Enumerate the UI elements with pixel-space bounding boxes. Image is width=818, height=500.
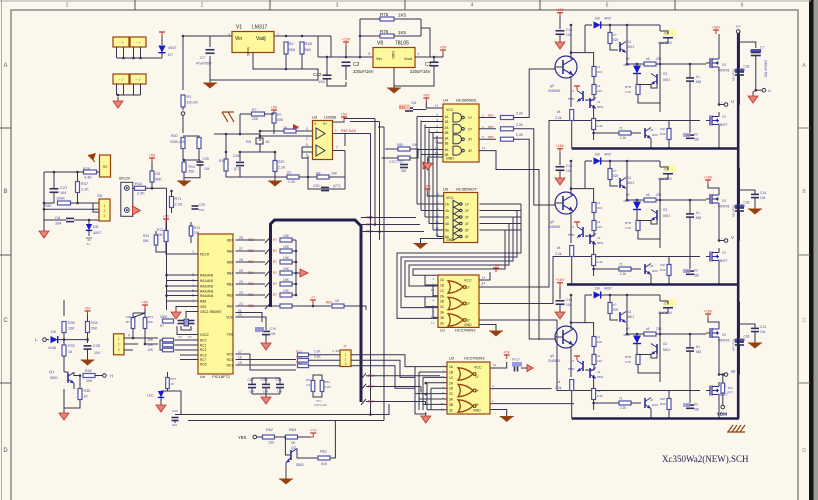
wire bbox=[417, 116, 443, 118]
wire bbox=[317, 36, 319, 57]
junction bbox=[76, 202, 79, 205]
wire bbox=[660, 301, 668, 304]
node terminal bbox=[736, 30, 740, 34]
wire bbox=[74, 372, 79, 375]
wire bbox=[167, 274, 199, 276]
svg-text:100: 100 bbox=[597, 340, 602, 344]
svg-text:1B: 1B bbox=[449, 371, 453, 375]
svg-text:60NF06: 60NF06 bbox=[718, 339, 730, 343]
resistor ?4 2.2k (stage U) bbox=[592, 119, 596, 130]
svg-text:+16V: +16V bbox=[704, 310, 713, 314]
svg-text:+5V: +5V bbox=[440, 46, 447, 50]
ground bbox=[754, 340, 756, 343]
svg-text:C36: C36 bbox=[744, 201, 750, 205]
capacitor C16 104 (stage U) bbox=[556, 30, 565, 32]
svg-text:Vout1: Vout1 bbox=[246, 47, 250, 56]
capacitor C26 bbox=[236, 161, 244, 163]
resistor R?7 bbox=[398, 156, 410, 160]
wire bbox=[418, 372, 420, 410]
junction bbox=[659, 63, 662, 66]
capacitor C4 1000uF/50V bbox=[751, 52, 761, 54]
wire bbox=[298, 436, 311, 438]
wire bbox=[361, 384, 366, 390]
wire bbox=[167, 280, 199, 282]
wire bbox=[309, 359, 341, 361]
MOSFET V2 60NF06 (stage W) bbox=[709, 328, 711, 338]
svg-text:50K: 50K bbox=[155, 178, 162, 182]
resistor R44 10K bbox=[83, 374, 95, 378]
wire bbox=[479, 151, 539, 340]
wire bbox=[739, 190, 755, 194]
svg-text:R36: R36 bbox=[305, 41, 313, 46]
buffer gate bbox=[453, 200, 460, 208]
svg-text:C36: C36 bbox=[744, 65, 750, 69]
svg-text:Un: Un bbox=[200, 374, 205, 379]
node terminal bbox=[124, 186, 129, 191]
wire bbox=[240, 176, 287, 178]
wire bbox=[361, 224, 420, 226]
node terminal bbox=[124, 208, 129, 213]
wire bbox=[265, 281, 271, 287]
wire bbox=[292, 294, 296, 296]
transistor G1 5401 (stage U) bbox=[619, 42, 621, 52]
wire bbox=[668, 257, 670, 265]
svg-text:k4: k4 bbox=[557, 246, 561, 250]
connector J 3-pin bbox=[114, 334, 125, 355]
node terminal bbox=[724, 239, 728, 243]
svg-text:5551: 5551 bbox=[296, 463, 304, 467]
wire bbox=[378, 126, 384, 128]
wire bbox=[584, 295, 586, 323]
wire bbox=[285, 54, 287, 69]
wire bbox=[209, 56, 211, 80]
junction bbox=[307, 176, 310, 179]
wire bbox=[182, 107, 184, 110]
wire bbox=[133, 313, 145, 318]
svg-text:2Y: 2Y bbox=[468, 127, 473, 131]
wire bbox=[383, 127, 385, 421]
junction bbox=[433, 56, 436, 59]
wire bbox=[479, 320, 700, 391]
power flag +5V bbox=[506, 355, 508, 359]
wire bbox=[480, 223, 522, 225]
ground bbox=[425, 412, 427, 416]
wire bbox=[627, 25, 644, 64]
ground bbox=[175, 308, 177, 312]
svg-text:562: 562 bbox=[696, 216, 702, 220]
svg-text:1: 1 bbox=[335, 129, 337, 133]
wire bbox=[209, 36, 211, 47]
svg-text:10K: 10K bbox=[148, 320, 153, 324]
svg-text:5551: 5551 bbox=[50, 376, 58, 380]
wire bbox=[273, 123, 275, 134]
wire bbox=[302, 147, 308, 158]
wire bbox=[190, 222, 192, 226]
svg-text:560: 560 bbox=[305, 48, 311, 52]
wire bbox=[436, 137, 438, 237]
svg-text:C14: C14 bbox=[760, 191, 766, 195]
wire bbox=[638, 231, 660, 240]
wire bbox=[167, 285, 199, 287]
wire bbox=[756, 89, 762, 91]
svg-text:?1: ?1 bbox=[619, 127, 623, 131]
resistor R? 2.2k bbox=[501, 137, 514, 141]
power flag +50V bbox=[715, 30, 717, 34]
buffer gate bbox=[453, 213, 460, 221]
wire bbox=[521, 367, 527, 369]
wire bbox=[168, 391, 182, 415]
svg-text:?4: ?4 bbox=[597, 389, 601, 393]
wire bbox=[79, 376, 81, 389]
resistor R8 10K bbox=[317, 175, 329, 179]
wire bbox=[53, 172, 55, 188]
svg-text:220uF/16V: 220uF/16V bbox=[353, 69, 374, 74]
wire bbox=[514, 69, 553, 118]
capacitor C14 104 bbox=[751, 193, 759, 195]
svg-text:(47?): (47?) bbox=[333, 184, 340, 188]
wire bbox=[415, 393, 447, 395]
wire bbox=[265, 248, 271, 254]
diode D? 4007 bbox=[158, 46, 165, 53]
wire bbox=[166, 242, 199, 254]
wire bbox=[279, 389, 281, 395]
junction bbox=[43, 208, 46, 211]
wire bbox=[601, 24, 660, 26]
buffer gate bbox=[453, 226, 460, 234]
wire bbox=[140, 47, 142, 58]
transistor x3 5551 (stage W) bbox=[589, 368, 591, 378]
svg-text:100: 100 bbox=[597, 206, 602, 210]
resistor R71 2.2K bbox=[170, 197, 174, 208]
connector SD bbox=[99, 199, 110, 221]
svg-text:R40: R40 bbox=[660, 268, 666, 272]
wire bbox=[236, 239, 266, 241]
wire bbox=[167, 295, 199, 297]
wire bbox=[425, 127, 443, 129]
capacitor C25 104 bbox=[197, 161, 204, 163]
wire bbox=[584, 25, 586, 53]
svg-text:5551: 5551 bbox=[597, 375, 604, 379]
svg-text:LM317: LM317 bbox=[252, 25, 268, 31]
junction bbox=[592, 132, 595, 135]
ground bbox=[117, 97, 119, 101]
junction bbox=[144, 343, 147, 346]
svg-text:G1: G1 bbox=[627, 40, 631, 44]
svg-text:R32: R32 bbox=[44, 203, 52, 208]
svg-text:2C: 2C bbox=[440, 305, 445, 309]
wire bbox=[225, 152, 227, 159]
wire bbox=[183, 136, 199, 138]
wire bbox=[394, 66, 434, 86]
resistor R3 1K bbox=[256, 138, 263, 144]
ground bbox=[495, 328, 497, 331]
svg-text:R16: R16 bbox=[135, 182, 142, 186]
wire bbox=[393, 68, 395, 87]
IC U2 HC27NOR3 bbox=[447, 362, 490, 414]
svg-text:VCC: VCC bbox=[446, 108, 454, 112]
svg-text:C?0: C?0 bbox=[270, 327, 276, 331]
wire bbox=[186, 312, 199, 319]
wire bbox=[180, 359, 199, 361]
svg-text:120: 120 bbox=[597, 89, 602, 93]
wire bbox=[593, 133, 595, 140]
svg-text:5401: 5401 bbox=[663, 214, 670, 218]
wire bbox=[659, 25, 661, 31]
resistor R52 2.2K bbox=[320, 381, 324, 392]
svg-text:100.2K: 100.2K bbox=[187, 101, 199, 105]
svg-text:LED: LED bbox=[147, 394, 154, 398]
wire bbox=[87, 333, 89, 344]
wire bbox=[236, 313, 263, 323]
junction bbox=[722, 373, 725, 376]
svg-text:V1: V1 bbox=[236, 25, 242, 31]
wire bbox=[299, 176, 317, 178]
svg-text:16: 16 bbox=[238, 356, 242, 360]
junction bbox=[425, 393, 428, 396]
resistor R? 10K pull-up bbox=[280, 271, 292, 275]
svg-text:R3: R3 bbox=[246, 139, 252, 144]
wire bbox=[585, 365, 594, 371]
wire bbox=[514, 129, 553, 205]
wire bbox=[668, 276, 670, 285]
svg-text:104: 104 bbox=[199, 208, 204, 212]
wire bbox=[417, 149, 443, 151]
ground bbox=[209, 80, 211, 83]
node terminal bbox=[253, 435, 257, 439]
svg-text:VSS: VSS bbox=[227, 333, 233, 337]
junction bbox=[626, 63, 629, 66]
svg-text:2N5551: 2N5551 bbox=[548, 89, 561, 93]
svg-text:10K: 10K bbox=[68, 327, 75, 331]
svg-text:4.3K: 4.3K bbox=[84, 176, 92, 180]
svg-text:R1: R1 bbox=[187, 95, 192, 99]
wire bbox=[650, 275, 652, 285]
wire bbox=[570, 346, 572, 377]
svg-text:GND: GND bbox=[446, 238, 454, 242]
junction bbox=[359, 35, 362, 38]
wire bbox=[182, 149, 184, 160]
svg-text:R80 DAD: R80 DAD bbox=[341, 129, 357, 133]
svg-text:K2: K2 bbox=[694, 269, 698, 273]
ground YBM hatched bbox=[728, 425, 733, 432]
resistor k4 2.2k (stage V) bbox=[570, 246, 574, 257]
wire bbox=[610, 180, 618, 187]
wire bbox=[331, 36, 373, 57]
junction bbox=[425, 382, 428, 385]
svg-text:104: 104 bbox=[55, 222, 61, 226]
svg-text:?4: ?4 bbox=[597, 119, 601, 123]
wire bbox=[116, 84, 118, 95]
wire bbox=[265, 270, 271, 276]
svg-text:5551: 5551 bbox=[597, 241, 604, 245]
svg-text:C?C? 7C?: C?C? 7C? bbox=[389, 160, 404, 164]
wire bbox=[659, 199, 661, 248]
svg-text:+?: +? bbox=[311, 296, 315, 300]
resistor R?? 10K bbox=[131, 318, 135, 329]
resistor R13 10K bbox=[189, 226, 193, 236]
wire bbox=[593, 347, 595, 355]
svg-text:51K: 51K bbox=[321, 462, 328, 466]
wire bbox=[410, 149, 418, 158]
svg-text:R13: R13 bbox=[194, 226, 200, 230]
wire bbox=[480, 203, 522, 205]
resistor R? 2.2k bbox=[501, 127, 514, 131]
svg-text:1B: 1B bbox=[445, 120, 449, 124]
resistor R34 50K bbox=[154, 235, 158, 245]
svg-text:C33: C33 bbox=[262, 378, 268, 382]
svg-text:U3: U3 bbox=[312, 115, 318, 120]
transistor x? 5551 (stage W) bbox=[582, 361, 584, 371]
IC U5 HC365NOT bbox=[444, 193, 478, 243]
svg-text:x6: x6 bbox=[650, 128, 654, 132]
svg-text:2N5551: 2N5551 bbox=[548, 225, 561, 229]
svg-text:27: 27 bbox=[239, 247, 243, 251]
svg-text:2.2K: 2.2K bbox=[314, 355, 321, 359]
svg-text:10K: 10K bbox=[331, 172, 338, 176]
svg-text:24: 24 bbox=[239, 280, 243, 284]
svg-text:14: 14 bbox=[435, 104, 439, 108]
wire bbox=[636, 64, 638, 65]
svg-text:Vin: Vin bbox=[235, 36, 242, 42]
MOSFET V2 60NF06 (stage U) bbox=[709, 58, 711, 68]
svg-text:1.0K: 1.0K bbox=[288, 180, 296, 184]
wire bbox=[290, 450, 292, 460]
svg-text:2.2k: 2.2k bbox=[620, 406, 626, 410]
wire bbox=[274, 172, 276, 179]
wire bbox=[421, 239, 444, 242]
resistor R1 100.2K bbox=[181, 95, 185, 107]
svg-text:R?: R? bbox=[273, 282, 277, 286]
junction bbox=[86, 338, 89, 341]
resistor R? 10K pull-up bbox=[280, 293, 292, 297]
svg-text:H: H bbox=[110, 374, 113, 379]
svg-text:D8: D8 bbox=[595, 287, 600, 291]
ground bbox=[285, 476, 287, 479]
transistor x3 5551 (stage U) bbox=[589, 98, 591, 108]
svg-text:MCLR: MCLR bbox=[200, 253, 210, 257]
wire bbox=[285, 437, 291, 455]
wire bbox=[239, 152, 241, 161]
wire bbox=[86, 237, 92, 239]
wire bbox=[417, 203, 444, 205]
wire bbox=[420, 19, 422, 36]
wire bbox=[636, 334, 638, 335]
wire bbox=[754, 198, 756, 206]
connector AC input 2 bbox=[130, 74, 146, 84]
svg-text:1: 1 bbox=[192, 250, 194, 254]
svg-text:2.2k: 2.2k bbox=[516, 133, 523, 137]
svg-text:VCC: VCC bbox=[464, 279, 472, 283]
svg-text:47uF/16V: 47uF/16V bbox=[732, 69, 736, 81]
resistor x1 100 (stage V) bbox=[592, 203, 596, 213]
wire bbox=[656, 63, 664, 65]
svg-text:5551: 5551 bbox=[568, 97, 575, 101]
svg-text:R?B: R?B bbox=[625, 355, 631, 359]
wire bbox=[236, 353, 251, 355]
svg-text:1K5: 1K5 bbox=[398, 30, 407, 35]
svg-text:3C: 3C bbox=[449, 408, 454, 412]
NOR gate bbox=[458, 400, 473, 412]
wire bbox=[660, 167, 668, 170]
svg-text:47uF/16V: 47uF/16V bbox=[732, 339, 736, 351]
junction bbox=[295, 250, 298, 253]
wire bbox=[479, 325, 496, 329]
wire bbox=[571, 121, 573, 149]
wire bbox=[415, 56, 443, 58]
wire bbox=[286, 458, 291, 463]
resistor R? 10K bbox=[163, 343, 174, 347]
svg-text:C36: C36 bbox=[744, 335, 750, 339]
svg-text:R?B: R?B bbox=[625, 85, 631, 89]
wire bbox=[405, 217, 513, 297]
junction bbox=[139, 57, 142, 60]
wire bbox=[420, 121, 422, 211]
wire bbox=[117, 94, 141, 96]
transistor Q 2N5551 (stage W) bbox=[555, 326, 577, 348]
wire bbox=[181, 404, 389, 415]
junction bbox=[326, 56, 329, 59]
wire bbox=[594, 268, 619, 270]
svg-text:C: C bbox=[3, 318, 8, 324]
svg-text:R62: R62 bbox=[266, 428, 273, 432]
resistor R45 1K bbox=[78, 389, 82, 400]
wire bbox=[668, 410, 670, 419]
svg-text:17: 17 bbox=[238, 350, 242, 354]
wire bbox=[155, 231, 157, 235]
svg-text:RB0: RB0 bbox=[227, 305, 233, 309]
wire bbox=[479, 138, 496, 140]
wire bbox=[140, 84, 142, 95]
svg-text:RB2: RB2 bbox=[227, 294, 233, 298]
svg-text:x2: x2 bbox=[597, 220, 601, 224]
wire bbox=[656, 199, 664, 201]
wire bbox=[133, 312, 145, 314]
svg-text:C31: C31 bbox=[399, 106, 405, 110]
diode D5 4007 bbox=[86, 224, 92, 230]
svg-text:100: 100 bbox=[597, 70, 602, 74]
resistor ?1 2.2k (stage V) bbox=[619, 267, 631, 271]
wire bbox=[559, 153, 561, 165]
wire bbox=[479, 128, 496, 130]
resistor R?? 50K bbox=[272, 113, 276, 123]
capacitor C22 104 bbox=[323, 74, 332, 76]
transistor x6 (stage W) bbox=[644, 398, 646, 408]
capacitor K1 562 (stage W) bbox=[686, 347, 694, 349]
svg-text:13: 13 bbox=[431, 288, 435, 292]
ground bbox=[427, 159, 429, 163]
wire bbox=[571, 257, 573, 285]
IC U4 HC366NEE bbox=[443, 104, 479, 162]
wire bbox=[361, 373, 366, 379]
svg-text:C26: C26 bbox=[233, 154, 239, 158]
node terminal bbox=[721, 405, 725, 409]
svg-text:50K: 50K bbox=[277, 118, 284, 122]
resistor bbox=[197, 138, 201, 149]
svg-text:D8: D8 bbox=[595, 17, 600, 21]
power flag bbox=[161, 32, 163, 36]
wire bbox=[437, 142, 443, 144]
wire bbox=[490, 388, 552, 390]
wire bbox=[420, 387, 422, 393]
resistor R40 10K (stage U) bbox=[667, 129, 671, 140]
wire bbox=[239, 114, 241, 134]
power flag +5V bbox=[87, 311, 89, 315]
svg-text:562: 562 bbox=[189, 170, 195, 174]
svg-text:R?4: R?4 bbox=[148, 315, 154, 319]
junction bbox=[259, 135, 262, 138]
svg-text:q3: q3 bbox=[550, 84, 554, 88]
wire bbox=[593, 213, 595, 221]
